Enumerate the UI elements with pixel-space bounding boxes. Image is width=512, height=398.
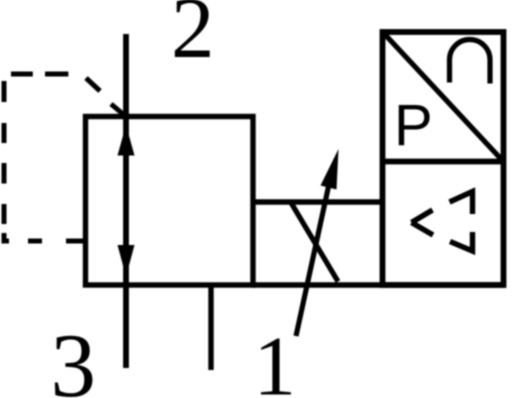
gauge block outline (right module)	[383, 32, 504, 285]
svg-text:2: 2	[171, 0, 215, 76]
exhaust triangle (dashed, pneumatic)	[412, 192, 473, 252]
arrowhead up (flow direction)	[118, 125, 135, 156]
gauge diagonal	[385, 34, 502, 160]
adjustment arrow head	[321, 149, 339, 190]
svg-text:1: 1	[254, 320, 297, 398]
pilot line (dashed)	[4, 74, 124, 241]
wire: channel top line	[253, 199, 383, 204]
wire: bottom rail to gauge block	[251, 282, 504, 288]
valve body (pressure regulator box)	[86, 117, 254, 286]
throttle diagonal (restrictor)	[292, 204, 339, 282]
gauge block divider	[383, 159, 504, 165]
wire: port 1 stub below body	[208, 285, 213, 370]
arrowhead down (relief direction)	[118, 245, 135, 277]
svg-text:3: 3	[51, 315, 97, 398]
svg-text:P: P	[394, 93, 433, 158]
gauge arc symbol	[450, 40, 491, 84]
adjustment arrow shaft	[296, 175, 331, 336]
wire: flow line through valve (port 2 to port 3)	[123, 34, 129, 368]
